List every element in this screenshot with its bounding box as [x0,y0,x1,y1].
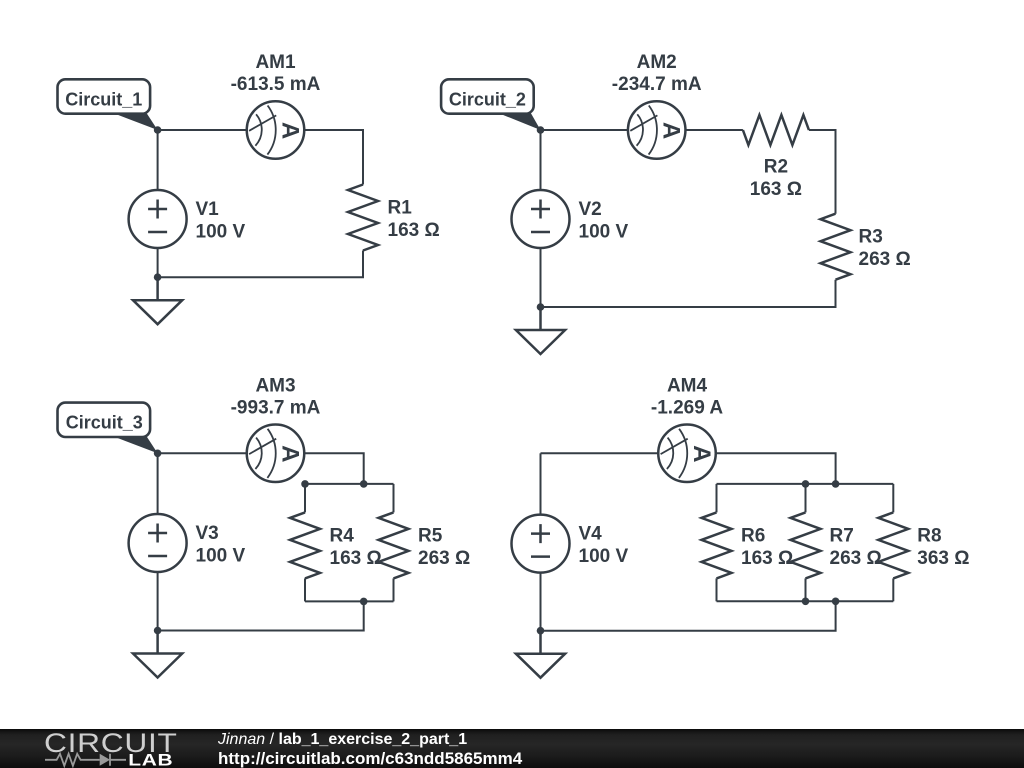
junction rail bottom circuit 4 right [832,598,840,606]
wire node down to V2 [540,130,542,190]
voltage source V2 [512,190,629,248]
wire R5 top lead [393,484,395,513]
svg-text:-1.269 A: -1.269 A [651,397,723,418]
ground circuit 3 [133,631,182,678]
wire bottom rail circuit 3 [305,600,394,602]
svg-text:100 V: 100 V [196,222,246,243]
svg-text:R2: R2 [764,157,788,178]
svg-text:AM4: AM4 [667,375,708,396]
ground circuit 4 [516,631,565,678]
junction rail top circuit 4 right [832,480,840,488]
resistor R1 [348,185,440,251]
resistor R3 [821,214,911,280]
svg-text:163 Ω: 163 Ω [388,220,440,241]
svg-text:R6: R6 [741,525,765,546]
svg-text:V4: V4 [579,524,603,545]
wire V4 to bottom node [540,573,542,631]
wire ammeter AM2 to R2 [686,129,743,131]
wire top left corner to ammeter AM4 [541,452,659,454]
svg-text:100 V: 100 V [579,546,629,567]
svg-text:AM1: AM1 [255,52,296,73]
wire node to ammeter AM3 [158,452,247,454]
svg-text:AM3: AM3 [255,375,295,396]
svg-text:163 Ω: 163 Ω [741,548,793,569]
ground circuit 2 [516,307,565,354]
voltage source V4 [512,515,629,573]
resistor R4 [290,512,382,578]
svg-text:100 V: 100 V [579,222,629,243]
svg-text:R3: R3 [859,227,883,248]
resistor R5 [379,512,471,578]
wire node to ammeter [158,129,247,131]
wire R7 bottom lead [805,578,807,601]
wire R6 top lead [716,484,718,513]
junction rail bottom circuit 4 left [802,598,810,606]
resistor R7 [791,512,882,578]
svg-text:AM2: AM2 [637,52,677,73]
svg-text:-993.7 mA: -993.7 mA [231,397,321,418]
svg-text:100 V: 100 V [196,546,246,567]
resistor R6 [702,512,794,578]
node junction bottom circuit 3 [154,627,162,635]
node junction top circuit 3 [154,450,162,458]
ammeter AM2 [612,52,702,159]
svg-text:263 Ω: 263 Ω [418,548,470,569]
node junction bottom circuit 4 [537,627,545,635]
node label Circuit_2 [441,79,540,130]
footer bar [0,729,1024,768]
junction rail top circuit 4 left [802,480,810,488]
wire top left down to V4 [540,453,542,514]
wire rail junction down to bottom wire circuit 4 [541,601,836,630]
svg-text:V1: V1 [196,199,220,220]
svg-text:Circuit_2: Circuit_2 [449,89,526,109]
voltage source V1 [129,190,246,248]
svg-text:Circuit_1: Circuit_1 [65,89,142,109]
wire R4 top lead [304,484,306,513]
wire bottom rail circuit 4 [717,600,894,602]
junction rail bottom circuit 3 [360,598,368,606]
svg-text:363 Ω: 363 Ω [917,548,969,569]
wire ammeter to corner and down to R1 [304,130,363,185]
resistor R8 [878,512,969,578]
ground circuit 1 [133,277,182,324]
svg-text:Circuit_3: Circuit_3 [66,413,143,433]
wire R3 to bottom [541,280,836,307]
wire R8 bottom lead [892,578,894,601]
wire node down to V3 [157,453,159,514]
wire node to ammeter AM2 [541,129,628,131]
wire ammeter AM3 right and down to rail [304,453,363,484]
svg-text:R5: R5 [418,525,443,546]
svg-text:R7: R7 [830,525,854,546]
wire V2 to bottom node [540,248,542,307]
wire R6 bottom lead [716,578,718,601]
wire node down to V1 [157,130,159,190]
svg-text:R8: R8 [917,525,941,546]
wire V3 to bottom node [157,572,159,631]
svg-text:163 Ω: 163 Ω [750,179,802,200]
svg-text:V2: V2 [579,199,602,220]
ammeter AM4 [651,375,723,482]
svg-text:R4: R4 [330,525,355,546]
svg-text:263 Ω: 263 Ω [830,548,882,569]
wire rail junction down to bottom [158,601,364,630]
svg-text:R1: R1 [388,198,413,219]
wire R7 top lead [805,484,807,513]
resistor R2 [743,115,809,200]
wire R8 top lead [892,484,894,513]
node junction bottom circuit 2 [537,303,545,311]
svg-text:263 Ω: 263 Ω [859,249,911,270]
node junction bottom circuit 1 [154,273,162,281]
node junction top circuit 1 [154,126,162,134]
wire ammeter AM4 right and down to rail [716,453,836,484]
wire R1 to bottom [158,251,363,278]
node junction top circuit 2 [537,126,545,134]
svg-text:V3: V3 [196,523,219,544]
svg-text:-234.7 mA: -234.7 mA [612,74,702,95]
node label Circuit_3 [58,403,158,454]
voltage source V3 [129,514,246,572]
CircuitLab logo [0,729,190,768]
ammeter AM3 [231,375,321,482]
wire R4 bottom lead [304,578,306,601]
junction rail top circuit 3 [360,480,368,488]
svg-text:LAB: LAB [128,751,173,768]
wire R5 bottom lead [393,578,395,601]
junction R4 top [301,480,309,488]
wire V1 to bottom node [157,248,159,277]
svg-text:-613.5 mA: -613.5 mA [231,74,321,95]
node label Circuit_1 [58,79,158,130]
wire R2 to corner down to R3 [809,130,836,214]
svg-text:163 Ω: 163 Ω [330,548,382,569]
wire top rail circuit 3 [305,483,394,485]
wire top rail circuit 4 [717,483,894,485]
ammeter AM1 [231,52,321,159]
